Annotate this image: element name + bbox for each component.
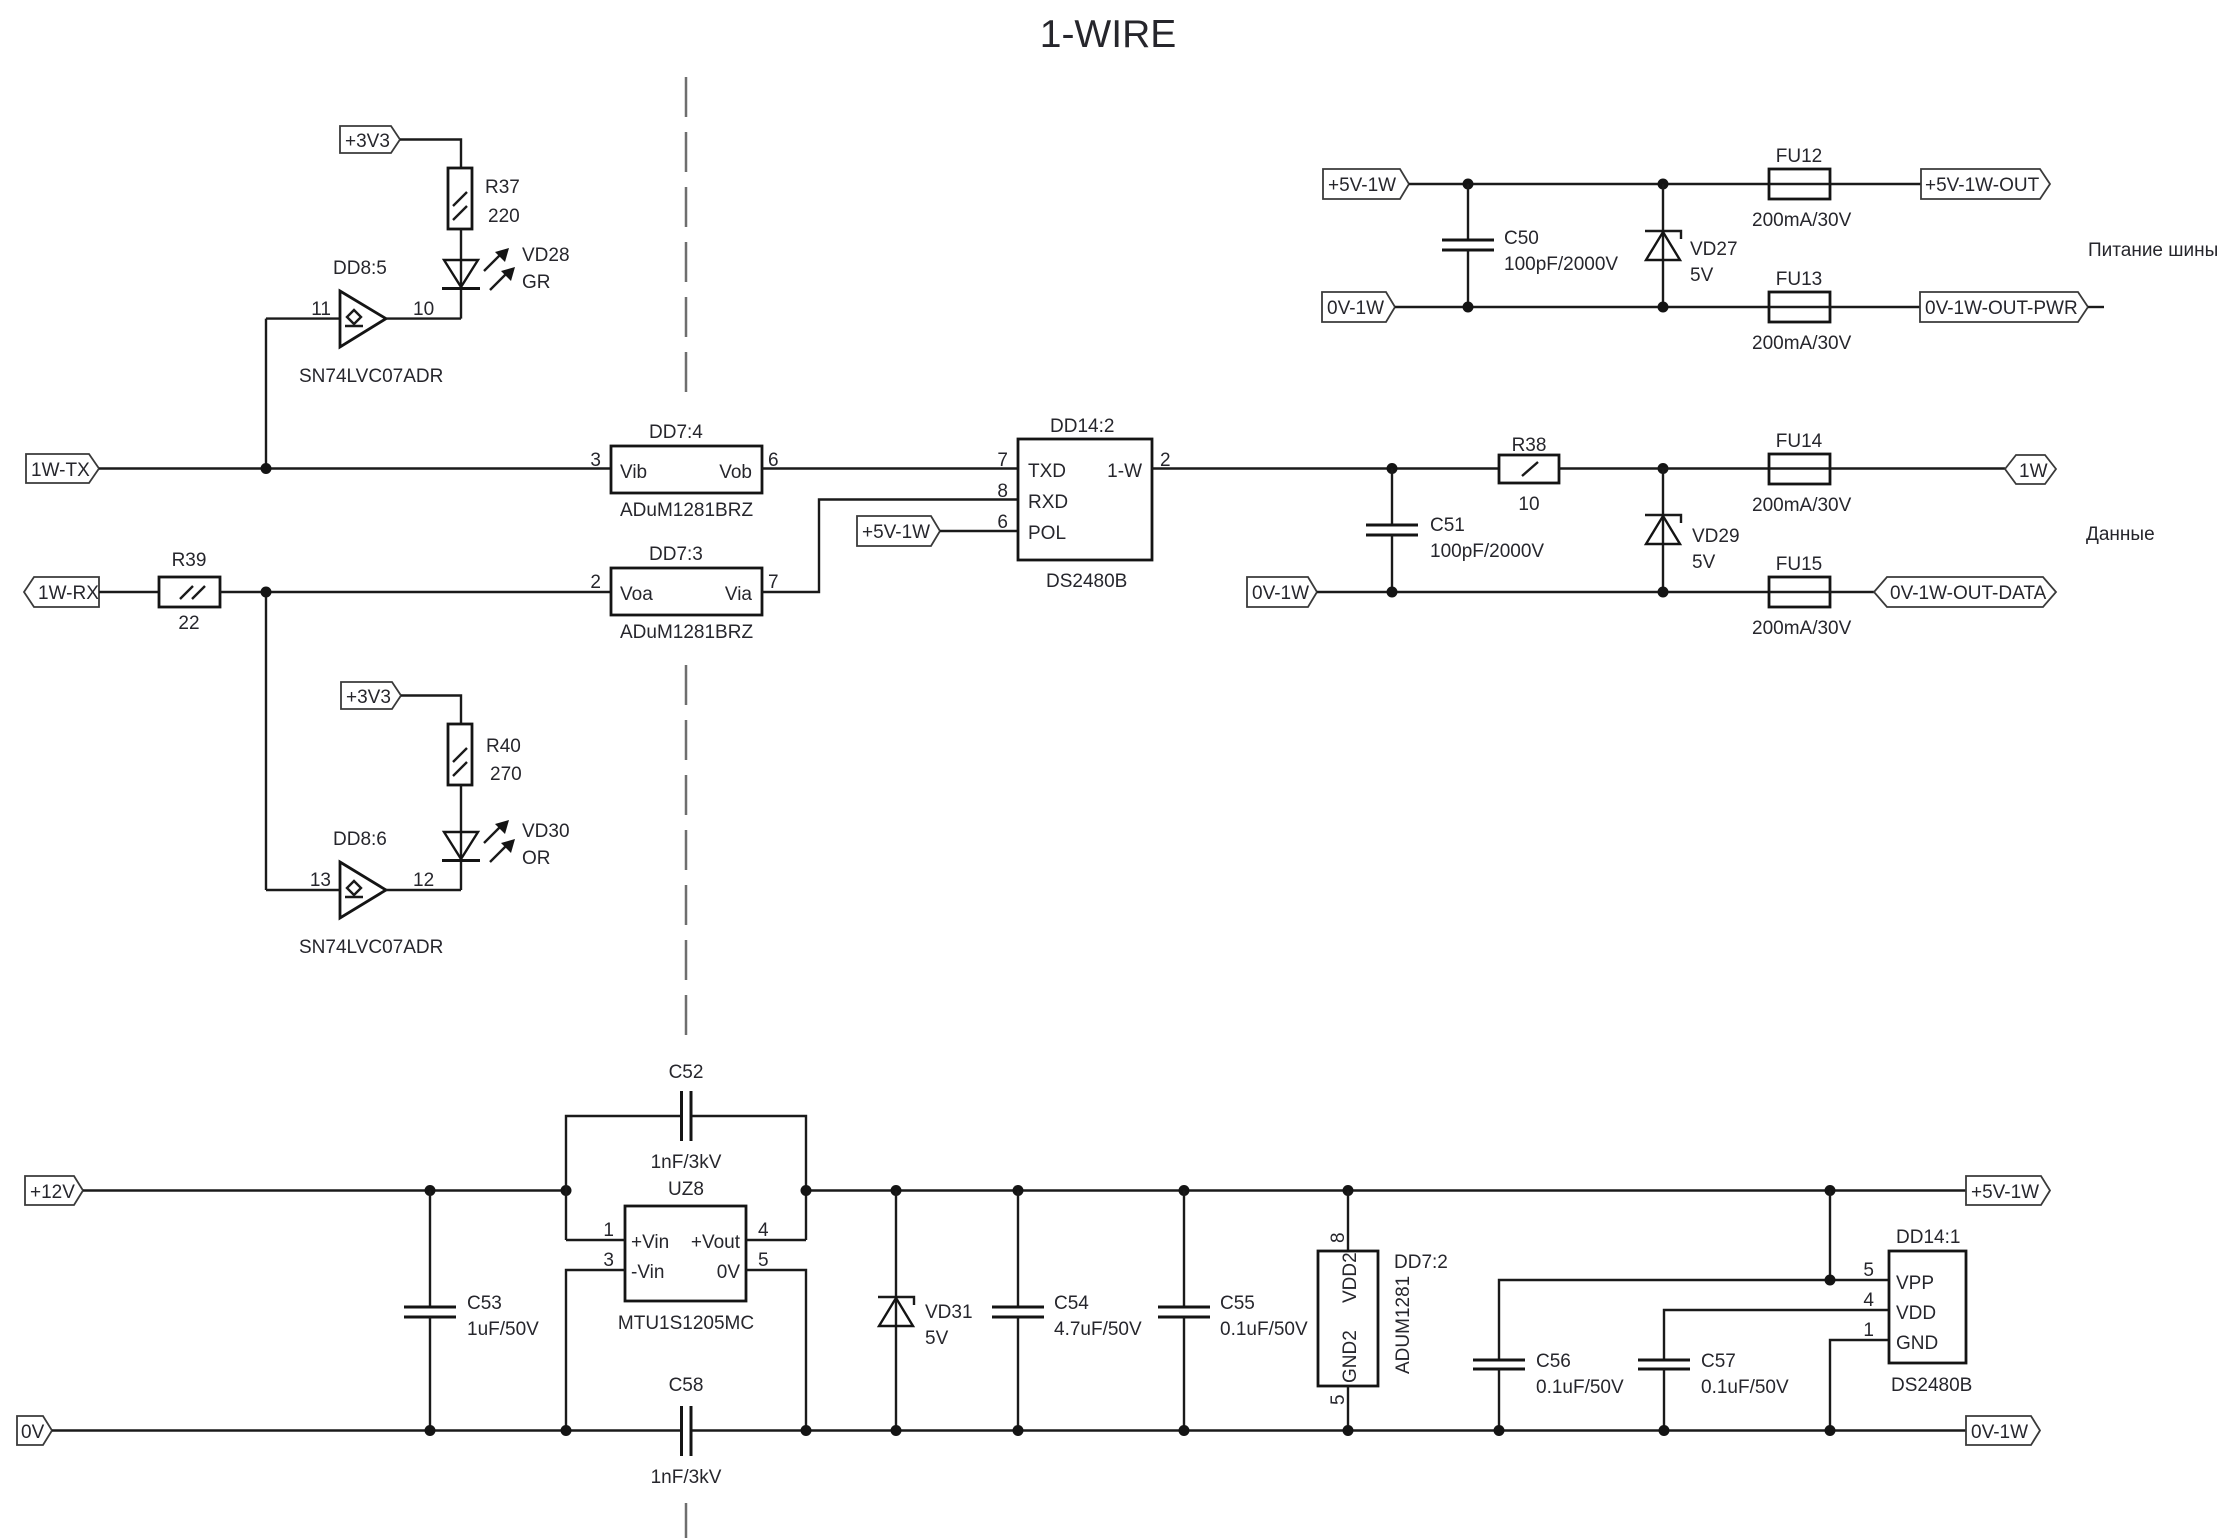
fuse FU12 bbox=[1769, 183, 1921, 185]
resistor R40 bbox=[448, 724, 472, 785]
pin 2 wire 1-W output bbox=[1152, 467, 1499, 469]
svg-text:-Vin: -Vin bbox=[631, 1262, 664, 1283]
svg-text:+5V-1W: +5V-1W bbox=[1971, 1182, 2039, 1203]
junction 1W-RX bbox=[261, 587, 272, 598]
wire 0V-1W data rail bbox=[1317, 591, 1769, 593]
svg-text:0V-1W: 0V-1W bbox=[1971, 1422, 2028, 1443]
junction C55 bottom bbox=[1179, 1425, 1190, 1436]
capacitor C57 bbox=[1664, 1310, 1889, 1360]
resistor R39 bbox=[159, 577, 220, 607]
svg-text:VDD: VDD bbox=[1896, 1303, 1936, 1324]
port flag 0V-1W-OUT-DATA (hex) bbox=[1874, 577, 2056, 607]
pin 1 wire +Vin bbox=[566, 1239, 625, 1241]
svg-text:1W-RX: 1W-RX bbox=[38, 583, 99, 604]
svg-text:100pF/2000V: 100pF/2000V bbox=[1504, 254, 1618, 275]
svg-text:3: 3 bbox=[603, 1250, 614, 1271]
wire tail after 0V-1W-OUT-PWR bbox=[2088, 306, 2104, 308]
svg-text:0V: 0V bbox=[717, 1262, 741, 1283]
power flag 0V-1W (data) bbox=[1247, 577, 1317, 607]
capacitor C52 bbox=[566, 1116, 680, 1240]
wire +5V-1W rail bbox=[1409, 183, 1769, 185]
svg-text:DD8:6: DD8:6 bbox=[333, 829, 387, 850]
power flag +5V-1W (bottom right) bbox=[1966, 1176, 2050, 1205]
svg-text:+5V-1W: +5V-1W bbox=[1328, 175, 1396, 196]
fuse FU13 bbox=[1769, 292, 1830, 322]
svg-text:POL: POL bbox=[1028, 523, 1066, 544]
wire R40 to VD30 bbox=[460, 785, 462, 890]
svg-text:VD29: VD29 bbox=[1692, 526, 1740, 547]
svg-text:1: 1 bbox=[1863, 1320, 1874, 1341]
svg-text:DD7:4: DD7:4 bbox=[649, 422, 703, 443]
svg-text:FU15: FU15 bbox=[1776, 554, 1822, 575]
svg-text:SN74LVC07ADR: SN74LVC07ADR bbox=[299, 366, 443, 387]
svg-text:UZ8: UZ8 bbox=[668, 1179, 704, 1200]
svg-text:22: 22 bbox=[178, 613, 199, 634]
port flag 1W (hex) bbox=[2005, 455, 2056, 484]
LED VD28 GR bbox=[444, 260, 478, 287]
svg-text:Vib: Vib bbox=[620, 462, 647, 483]
junction VD29 top bbox=[1658, 463, 1669, 474]
wire 1W-TX rail bbox=[99, 467, 611, 469]
svg-text:DD7:2: DD7:2 bbox=[1394, 1252, 1448, 1273]
junction C55 top bbox=[1179, 1185, 1190, 1196]
svg-text:200mA/30V: 200mA/30V bbox=[1752, 495, 1852, 516]
power flag +5V-1W (top) bbox=[1323, 169, 1409, 199]
wire 0V-1W rail bbox=[1395, 306, 1769, 308]
svg-text:R40: R40 bbox=[486, 736, 521, 757]
junction C56 bottom bbox=[1494, 1425, 1505, 1436]
svg-text:C52: C52 bbox=[669, 1062, 704, 1083]
svg-text:1W-TX: 1W-TX bbox=[31, 460, 90, 481]
svg-text:C53: C53 bbox=[467, 1293, 502, 1314]
wire pin11 down to 1W-TX rail bbox=[265, 319, 267, 469]
wire +3V3 to R40 bbox=[401, 696, 461, 725]
svg-text:+5V-1W: +5V-1W bbox=[862, 522, 930, 543]
capacitor C54 bbox=[1017, 1191, 1019, 1308]
junction 0V pin bottom bbox=[801, 1425, 812, 1436]
wire pin13 up to 1W-RX rail bbox=[265, 592, 267, 890]
svg-text:5: 5 bbox=[1328, 1394, 1349, 1405]
svg-text:7: 7 bbox=[997, 450, 1008, 471]
svg-text:4.7uF/50V: 4.7uF/50V bbox=[1054, 1319, 1142, 1340]
wire 0V rail left bbox=[52, 1429, 680, 1431]
isolation barrier dashed line bottom bbox=[685, 1503, 688, 1538]
svg-text:VPP: VPP bbox=[1896, 1273, 1934, 1294]
svg-text:GND: GND bbox=[1896, 1333, 1938, 1354]
svg-text:VD27: VD27 bbox=[1690, 239, 1738, 260]
svg-text:12: 12 bbox=[413, 870, 434, 891]
svg-text:100pF/2000V: 100pF/2000V bbox=[1430, 541, 1544, 562]
wire 1W-RX to R39 bbox=[99, 591, 159, 593]
svg-text:200mA/30V: 200mA/30V bbox=[1752, 210, 1852, 231]
svg-text:2: 2 bbox=[590, 572, 601, 593]
svg-text:7: 7 bbox=[768, 572, 779, 593]
svg-text:C56: C56 bbox=[1536, 1351, 1571, 1372]
svg-text:FU14: FU14 bbox=[1776, 431, 1823, 452]
svg-text:200mA/30V: 200mA/30V bbox=[1752, 333, 1852, 354]
svg-text:DD14:2: DD14:2 bbox=[1050, 416, 1114, 437]
svg-text:C58: C58 bbox=[669, 1375, 704, 1396]
wire VPP branch bbox=[1830, 1191, 1889, 1281]
svg-text:Данные: Данные bbox=[2086, 524, 2155, 545]
wire GND branch bbox=[1830, 1340, 1889, 1431]
junction VD31 bottom bbox=[891, 1425, 902, 1436]
pin 7 wire Via up to RXD bbox=[762, 500, 1018, 593]
svg-text:1nF/3kV: 1nF/3kV bbox=[651, 1467, 722, 1488]
svg-text:DS2480B: DS2480B bbox=[1891, 1375, 1972, 1396]
svg-text:0.1uF/50V: 0.1uF/50V bbox=[1536, 1377, 1624, 1398]
junction GND bottom bbox=[1825, 1425, 1836, 1436]
svg-text:C51: C51 bbox=[1430, 515, 1465, 536]
svg-text:0V-1W: 0V-1W bbox=[1252, 583, 1309, 604]
svg-text:FU12: FU12 bbox=[1776, 146, 1822, 167]
svg-text:VD30: VD30 bbox=[522, 821, 570, 842]
power flag 0V-1W (bottom right) bbox=[1966, 1416, 2040, 1445]
junction VD27 top bbox=[1658, 179, 1669, 190]
junction VD29 bottom bbox=[1658, 587, 1669, 598]
wire R37 to VD28 bbox=[460, 229, 462, 319]
junction C53 top bbox=[425, 1185, 436, 1196]
svg-text:8: 8 bbox=[1328, 1232, 1349, 1243]
junction C57 bottom bbox=[1659, 1425, 1670, 1436]
isolator supply DD7:2 ADUM1281 bbox=[1347, 1191, 1349, 1252]
svg-text:DD14:1: DD14:1 bbox=[1896, 1227, 1960, 1248]
port flag 0V-1W-OUT-PWR bbox=[1920, 292, 2088, 322]
junction C54 top bbox=[1013, 1185, 1024, 1196]
svg-text:0.1uF/50V: 0.1uF/50V bbox=[1220, 1319, 1308, 1340]
power flag +3V3 (lower) bbox=[341, 682, 401, 709]
junction DD7:2 pin8 bbox=[1343, 1185, 1354, 1196]
fuse FU15 bbox=[1769, 577, 1830, 607]
junction C50 bottom bbox=[1463, 302, 1474, 313]
power flag 0V bbox=[17, 1416, 52, 1445]
pin 6 wire Vob to TXD bbox=[762, 467, 1018, 469]
pin 13 wire bbox=[266, 889, 340, 891]
junction VPP branch bbox=[1825, 1185, 1836, 1196]
svg-text:R38: R38 bbox=[1512, 435, 1547, 456]
svg-text:Питание шины: Питание шины bbox=[2088, 240, 2218, 261]
svg-text:5: 5 bbox=[758, 1250, 769, 1271]
svg-text:GR: GR bbox=[522, 272, 551, 293]
svg-text:10: 10 bbox=[1518, 494, 1539, 515]
svg-text:270: 270 bbox=[490, 764, 522, 785]
svg-text:11: 11 bbox=[311, 299, 331, 320]
junction DD7:2 pin5 bottom bbox=[1343, 1425, 1354, 1436]
zener VD29 bbox=[1662, 469, 1664, 593]
svg-text:5V: 5V bbox=[1692, 552, 1716, 573]
zener VD27 bbox=[1662, 184, 1664, 307]
junction -Vin bottom bbox=[561, 1425, 572, 1436]
svg-text:VD28: VD28 bbox=[522, 245, 570, 266]
junction 1W-TX bbox=[261, 463, 272, 474]
svg-text:0V: 0V bbox=[21, 1422, 45, 1443]
port flag 1W-RX bbox=[24, 577, 99, 607]
svg-text:Voa: Voa bbox=[620, 584, 653, 605]
svg-text:Via: Via bbox=[725, 584, 753, 605]
svg-text:TXD: TXD bbox=[1028, 461, 1066, 482]
junction C53 bottom bbox=[425, 1425, 436, 1436]
svg-text:10: 10 bbox=[413, 299, 434, 320]
svg-text:MTU1S1205MC: MTU1S1205MC bbox=[618, 1313, 754, 1334]
svg-text:5: 5 bbox=[1863, 1260, 1874, 1281]
IC DD14:2 DS2480B bbox=[1018, 439, 1152, 560]
resistor R38 bbox=[1499, 455, 1559, 483]
pin 5 wire 0V bbox=[746, 1270, 806, 1431]
svg-text:6: 6 bbox=[997, 512, 1008, 533]
svg-text:DS2480B: DS2480B bbox=[1046, 571, 1127, 592]
svg-text:+3V3: +3V3 bbox=[346, 687, 391, 708]
svg-text:3: 3 bbox=[590, 450, 601, 471]
svg-text:6: 6 bbox=[768, 450, 779, 471]
wire +12V rail bbox=[83, 1189, 566, 1191]
junction VD27 bottom bbox=[1658, 302, 1669, 313]
capacitor C55 bbox=[1183, 1191, 1185, 1308]
svg-text:1W: 1W bbox=[2019, 461, 2048, 482]
svg-text:5V: 5V bbox=[1690, 265, 1714, 286]
svg-text:ADuM1281BRZ: ADuM1281BRZ bbox=[620, 622, 753, 643]
power flag 0V-1W (top) bbox=[1322, 292, 1395, 322]
svg-text:1nF/3kV: 1nF/3kV bbox=[651, 1152, 722, 1173]
capacitor C56 bbox=[1499, 1280, 1830, 1360]
svg-text:C50: C50 bbox=[1504, 228, 1539, 249]
svg-text:R37: R37 bbox=[485, 177, 520, 198]
junction C50 top bbox=[1463, 179, 1474, 190]
capacitor C50 bbox=[1467, 184, 1469, 240]
power flag +5V-1W to POL bbox=[857, 516, 940, 546]
pin 11 wire bbox=[266, 317, 340, 319]
svg-text:VDD2: VDD2 bbox=[1340, 1252, 1361, 1303]
port flag +5V-1W-OUT bbox=[1921, 169, 2050, 199]
svg-text:+5V-1W-OUT: +5V-1W-OUT bbox=[1925, 175, 2040, 196]
svg-text:+12V: +12V bbox=[30, 1182, 75, 1203]
LED VD30 OR bbox=[444, 832, 478, 859]
junction VD31 top bbox=[891, 1185, 902, 1196]
capacitor C58 bbox=[680, 1406, 683, 1456]
svg-text:1: 1 bbox=[603, 1220, 614, 1241]
buffer DD8:5 SN74LVC07ADR bbox=[340, 291, 386, 347]
svg-text:0V-1W: 0V-1W bbox=[1327, 298, 1384, 319]
svg-text:+Vout: +Vout bbox=[691, 1232, 741, 1253]
svg-text:GND2: GND2 bbox=[1340, 1330, 1361, 1383]
pin 4 wire +Vout bbox=[746, 1239, 806, 1241]
zener VD31 bbox=[895, 1191, 897, 1431]
svg-text:200mA/30V: 200mA/30V bbox=[1752, 618, 1852, 639]
fuse FU14 bbox=[1769, 454, 1830, 484]
svg-text:+3V3: +3V3 bbox=[345, 131, 390, 152]
pin 12 wire bbox=[386, 889, 461, 891]
svg-text:220: 220 bbox=[488, 206, 520, 227]
junction UZ8 output bbox=[801, 1185, 812, 1196]
svg-text:2: 2 bbox=[1160, 450, 1171, 471]
junction C54 bottom bbox=[1013, 1425, 1024, 1436]
wire POL bbox=[940, 530, 1018, 532]
isolator DD7:4 ADuM1281BRZ bbox=[611, 446, 762, 493]
wire +3V3 to R37 bbox=[400, 140, 461, 169]
wire 0V-1W rail right bbox=[692, 1429, 1966, 1431]
junction VPP bbox=[1825, 1275, 1836, 1286]
svg-text:0.1uF/50V: 0.1uF/50V bbox=[1701, 1377, 1789, 1398]
svg-text:DD7:3: DD7:3 bbox=[649, 544, 703, 565]
svg-text:1-W: 1-W bbox=[1107, 461, 1142, 482]
pin 3 wire -Vin bbox=[566, 1270, 625, 1431]
svg-text:8: 8 bbox=[997, 481, 1008, 502]
svg-text:4: 4 bbox=[1863, 1290, 1874, 1311]
wire R38 to FU14 bbox=[1559, 467, 1769, 469]
svg-text:C57: C57 bbox=[1701, 1351, 1736, 1372]
svg-text:+Vin: +Vin bbox=[631, 1232, 669, 1253]
svg-text:SN74LVC07ADR: SN74LVC07ADR bbox=[299, 937, 443, 958]
svg-text:5V: 5V bbox=[925, 1328, 949, 1349]
svg-text:Vob: Vob bbox=[719, 462, 752, 483]
wire +5V-1W rail bottom bbox=[806, 1189, 1966, 1191]
power flag +12V bbox=[25, 1176, 83, 1205]
junction C51 bottom bbox=[1387, 587, 1398, 598]
junction UZ8 input bbox=[561, 1185, 572, 1196]
capacitor C53 bbox=[429, 1191, 431, 1308]
port flag 1W-TX bbox=[26, 454, 99, 483]
isolation barrier dashed line middle bbox=[685, 665, 688, 1041]
svg-text:R39: R39 bbox=[172, 550, 207, 571]
svg-text:OR: OR bbox=[522, 848, 551, 869]
buffer DD8:6 SN74LVC07ADR bbox=[340, 862, 386, 918]
isolator DD7:3 ADuM1281BRZ bbox=[611, 568, 762, 615]
power flag +3V3 (upper) bbox=[340, 126, 400, 153]
pin 10 wire bbox=[386, 317, 461, 319]
svg-text:C55: C55 bbox=[1220, 1293, 1255, 1314]
svg-text:RXD: RXD bbox=[1028, 492, 1068, 513]
svg-text:0V-1W-OUT-DATA: 0V-1W-OUT-DATA bbox=[1890, 583, 2047, 604]
isolation barrier dashed line top bbox=[685, 77, 688, 393]
resistor R37 bbox=[448, 168, 472, 229]
svg-text:FU13: FU13 bbox=[1776, 269, 1822, 290]
IC DD14:1 DS2480B supply bbox=[1889, 1251, 1966, 1363]
svg-text:ADUM1281: ADUM1281 bbox=[1393, 1276, 1414, 1374]
svg-text:1-WIRE: 1-WIRE bbox=[1040, 13, 1177, 56]
svg-text:ADuM1281BRZ: ADuM1281BRZ bbox=[620, 500, 753, 521]
svg-text:C54: C54 bbox=[1054, 1293, 1089, 1314]
wire R39 to DD7:3 bbox=[220, 591, 611, 593]
svg-text:DD8:5: DD8:5 bbox=[333, 258, 387, 279]
svg-text:4: 4 bbox=[758, 1220, 769, 1241]
svg-text:13: 13 bbox=[310, 870, 331, 891]
svg-text:VD31: VD31 bbox=[925, 1302, 973, 1323]
svg-text:0V-1W-OUT-PWR: 0V-1W-OUT-PWR bbox=[1925, 298, 2078, 319]
svg-text:1uF/50V: 1uF/50V bbox=[467, 1319, 539, 1340]
junction C51 top bbox=[1387, 463, 1398, 474]
capacitor C51 bbox=[1391, 469, 1393, 526]
